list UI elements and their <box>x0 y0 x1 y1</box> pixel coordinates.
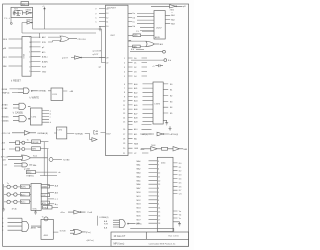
svg-text:TRAP(1): TRAP(1) <box>2 92 10 95</box>
svg-text:17: 17 <box>123 134 125 136</box>
svg-text:B5: B5 <box>170 113 172 115</box>
pin phi-in <box>3 48 22 50</box>
svg-text:RESB: RESB <box>2 89 8 91</box>
nand U9 reset <box>18 88 38 94</box>
border frame <box>3 4 189 246</box>
U14 right pins <box>165 15 170 23</box>
svg-text:38: 38 <box>29 42 31 44</box>
inverter U31 (osc) <box>23 11 33 14</box>
svg-text:ATN: ATN <box>42 202 46 205</box>
svg-text:MD0: MD0 <box>137 192 141 194</box>
connector row 1 <box>4 185 31 189</box>
svg-text:SA1: SA1 <box>171 14 175 17</box>
and gate U10b <box>13 116 30 122</box>
svg-text:MD2: MD2 <box>137 200 141 202</box>
wire dot clock bus upper <box>33 18 102 30</box>
svg-text:A02: A02 <box>134 91 137 94</box>
svg-text:Sout: Sout <box>33 155 37 158</box>
svg-text:RxW: RxW <box>42 67 46 69</box>
svg-text:4066: 4066 <box>44 235 48 237</box>
svg-text:5: 5 <box>124 76 125 78</box>
svg-text:LS373: LS373 <box>155 104 161 106</box>
wire drop to 6510 phi-in <box>39 33 41 38</box>
svg-text:11: 11 <box>123 105 125 107</box>
svg-text:CPU CLK: CPU CLK <box>2 133 11 135</box>
U14 left pins <box>137 13 154 30</box>
svg-text:A03: A03 <box>134 96 137 99</box>
+5V arrow <box>44 8 45 11</box>
svg-text:KERNAL(B): KERNAL(B) <box>38 132 49 135</box>
connector pad (osc out) <box>10 23 12 25</box>
VIC pin numbers left <box>106 9 108 65</box>
svg-text:A06: A06 <box>134 108 137 111</box>
crystal Y1 <box>16 11 21 16</box>
svg-text:1: 1 <box>124 58 125 60</box>
svg-text:A08: A08 <box>134 117 137 120</box>
svg-text:MD7: MD7 <box>137 219 141 221</box>
flipflop U16 74LS74 <box>51 88 63 100</box>
svg-text:ALEC: ALEC <box>21 186 27 189</box>
svg-text:22: 22 <box>106 62 108 64</box>
boxed tag RSin <box>43 206 58 210</box>
svg-text:GND: GND <box>42 71 47 73</box>
svg-text:12: 12 <box>106 17 108 19</box>
svg-text:11: 11 <box>158 176 160 178</box>
pin RDY <box>3 57 22 59</box>
svg-text:AxLx: AxLx <box>21 193 25 196</box>
svg-text:RS.A: RS.A <box>43 206 48 209</box>
or gate U25 <box>70 229 86 234</box>
svg-text:ABC: ABC <box>133 45 138 48</box>
VIC pin phi0 <box>94 130 106 136</box>
svg-text:φ2: φ2 <box>99 67 101 69</box>
svg-text:S./TxB: S./TxB <box>60 230 67 232</box>
svg-text:KERNAL: KERNAL <box>39 90 48 93</box>
svg-text:KERNAL: KERNAL <box>75 132 84 135</box>
boxed tag SPEED <box>128 34 154 37</box>
svg-text:2: 2 <box>158 196 159 198</box>
svg-text:3: 3 <box>158 200 159 202</box>
wire clock bus lower <box>22 23 96 34</box>
mux U14 74LS257 <box>154 11 165 39</box>
wire +5 drop <box>44 11 46 30</box>
latch U26 74LS373 <box>153 82 163 124</box>
svg-text:13: 13 <box>106 13 108 15</box>
pin numbers 6510 <box>29 37 31 73</box>
svg-text:21: 21 <box>123 153 125 155</box>
svg-text:LS257: LS257 <box>156 28 162 30</box>
ground (mid right) <box>169 126 172 130</box>
svg-text:A10: A10 <box>134 128 137 131</box>
ground (U21) <box>173 222 181 226</box>
U21 left pins <box>149 161 158 223</box>
svg-text:B0: B0 <box>170 84 172 86</box>
svg-text:P 0: P 0 <box>4 18 7 20</box>
svg-text:Dc: Dc <box>133 22 135 24</box>
boxed tag out3 <box>41 201 49 205</box>
ground (U26) <box>163 120 168 125</box>
pin RES <box>3 39 22 41</box>
left rail (cluster) <box>3 184 5 207</box>
svg-text:18: 18 <box>158 223 160 225</box>
svg-text:AEC: AEC <box>42 36 47 39</box>
svg-text:MA0: MA0 <box>137 160 141 163</box>
svg-text:MA3: MA3 <box>137 172 141 175</box>
svg-text:MD1: MD1 <box>137 196 141 198</box>
svg-text:c: c <box>50 116 51 118</box>
svg-text:R.W: R.W <box>104 224 108 226</box>
resistor R28 <box>13 12 15 14</box>
svg-text:A11: A11 <box>134 133 137 136</box>
svg-text:A09: A09 <box>134 121 137 124</box>
bus vertical B <box>47 149 49 209</box>
inverter U30 dot clk <box>71 56 106 59</box>
ground (VIC) <box>99 26 102 31</box>
U21 right pins lower <box>173 211 178 218</box>
svg-text:S.P CLK: S.P CLK <box>1 156 9 158</box>
svg-text:1: 1 <box>29 52 30 54</box>
svg-text:Commodore MOS Products Inc: Commodore MOS Products Inc <box>149 242 176 245</box>
pin labels 6510 right <box>42 36 48 73</box>
pin NMI <box>3 66 22 68</box>
svg-text:φ DOT: φ DOT <box>62 58 69 60</box>
svg-text:Tx: Tx <box>27 140 29 142</box>
row capacitors C1 <box>2 140 49 145</box>
wire 6510 to clk gate <box>48 37 60 42</box>
boxed tag ABCDE <box>128 45 147 48</box>
svg-text:MA1: MA1 <box>137 164 141 167</box>
svg-text:↳ RESET: ↳ RESET <box>11 80 22 83</box>
wire VIC clock rail <box>101 29 105 63</box>
svg-text:MD6: MD6 <box>137 215 141 217</box>
buffer U15a <box>141 147 162 151</box>
svg-text:B.d: B.d <box>131 49 134 51</box>
svg-text:↳ CAS(B): ↳ CAS(B) <box>12 112 23 115</box>
svg-text:D3: D3 <box>179 175 181 177</box>
svg-text:7: 7 <box>124 88 125 90</box>
VIC right wire labels <box>134 58 139 155</box>
svg-text:19: 19 <box>123 143 125 145</box>
svg-text:R/W: R/W <box>42 42 46 44</box>
buffer box U20 <box>31 184 41 211</box>
svg-text:13: 13 <box>158 184 160 186</box>
svg-text:D6: D6 <box>179 186 181 188</box>
and gate U12b <box>14 163 32 167</box>
svg-text:5: 5 <box>158 161 159 163</box>
svg-text:D0: D0 <box>134 58 136 60</box>
svg-text:Dd: Dd <box>133 26 135 28</box>
svg-text:5: 5 <box>29 71 30 73</box>
svg-text:7: 7 <box>29 37 30 39</box>
U26 left pins <box>143 84 154 122</box>
svg-text:9: 9 <box>124 96 125 98</box>
svg-text:B3: B3 <box>170 101 172 103</box>
svg-text:6567WXY: 6567WXY <box>107 7 116 9</box>
svg-text:16: 16 <box>123 129 125 131</box>
svg-text:RAS(B): RAS(B) <box>2 116 9 119</box>
svg-text:1: 1 <box>158 192 159 194</box>
svg-text:CAS..: CAS.. <box>140 148 146 151</box>
svg-text:74S04: 74S04 <box>25 10 32 12</box>
svg-text:TRAP(4): TRAP(4) <box>140 133 148 136</box>
inverter U32 <box>26 21 34 24</box>
svg-text:↳ WRITE: ↳ WRITE <box>29 97 39 100</box>
svg-text:(Pxx): (Pxx) <box>86 232 91 234</box>
svg-text:SA3: SA3 <box>171 23 175 26</box>
capacitor C5 +5 <box>156 64 164 67</box>
svg-text:10: 10 <box>158 180 160 182</box>
svg-text:ABRB: ABRB <box>31 226 37 229</box>
labels U23 inputs <box>2 218 4 232</box>
svg-text:b: b <box>50 114 51 116</box>
svg-text:17: 17 <box>158 219 160 221</box>
svg-text:SRQ: SRQ <box>27 172 32 174</box>
label row Pxx <box>136 31 154 33</box>
svg-text:φ CAS: φ CAS <box>24 168 30 171</box>
svg-text:MA2: MA2 <box>137 168 141 171</box>
svg-text:A05: A05 <box>134 104 137 107</box>
svg-text:(P. A): (P. A) <box>12 207 17 210</box>
CPU U7 6510 <box>22 37 31 77</box>
svg-text:TRAP(1): TRAP(1) <box>26 174 34 177</box>
svg-text:Run 1 of 16: Run 1 of 16 <box>169 235 179 237</box>
U21 left wire labels <box>137 160 142 225</box>
svg-text:(RES): (RES) <box>136 223 142 225</box>
svg-text:MD3: MD3 <box>137 204 141 206</box>
svg-text:Db: Db <box>133 17 135 19</box>
inverter U22 <box>68 210 86 214</box>
svg-text:D7: D7 <box>179 190 181 192</box>
buffer U15b <box>168 147 184 151</box>
svg-text:6: 6 <box>124 84 125 86</box>
gate U27 OR (AB) <box>146 42 159 47</box>
svg-text:C.7: C.7 <box>55 199 58 201</box>
svg-text:A01: A01 <box>134 87 137 90</box>
wire osc left rail <box>10 18 12 23</box>
wire U24 out <box>53 231 58 233</box>
bus vertical A <box>43 142 45 176</box>
wire res route <box>130 228 174 231</box>
svg-text:7: 7 <box>158 165 159 167</box>
svg-text:+(E.Pxx): +(E.Pxx) <box>86 240 94 242</box>
connector pad J3 <box>49 158 53 162</box>
svg-text:6: 6 <box>158 169 159 171</box>
svg-text:D0: D0 <box>179 163 181 165</box>
svg-text:ATN: ATN <box>32 148 36 151</box>
svg-text:3: 3 <box>124 67 125 69</box>
svg-text:2: 2 <box>124 62 125 64</box>
svg-text:6567: 6567 <box>111 35 115 37</box>
svg-text:18: 18 <box>123 139 125 141</box>
svg-text:Vc: Vc <box>179 218 181 220</box>
svg-text:MA6: MA6 <box>137 183 141 186</box>
svg-text:6567: 6567 <box>106 134 110 136</box>
stub SP2 <box>48 192 59 195</box>
svg-text:D5: D5 <box>179 182 181 184</box>
boxed tag SRQ <box>26 171 57 175</box>
svg-text:40: 40 <box>106 9 108 11</box>
inverter U8 top right <box>151 5 183 8</box>
svg-text:R27: R27 <box>14 8 18 10</box>
6510 right pins <box>31 37 41 71</box>
U21 right pins upper <box>173 163 178 194</box>
svg-text:10: 10 <box>106 26 108 28</box>
svg-text:A07: A07 <box>134 112 137 115</box>
oscillator box <box>11 7 33 17</box>
VIC left pins mid <box>99 56 106 58</box>
connector pad J2 <box>131 59 167 62</box>
svg-text:SRQIN: SRQIN <box>32 142 39 144</box>
U21 left pin numbers <box>158 161 161 225</box>
svg-text:d: d <box>50 122 51 124</box>
svg-text:D2: D2 <box>179 171 181 173</box>
svg-text:13: 13 <box>123 113 125 115</box>
svg-text:16 Core KT: 16 Core KT <box>114 235 126 238</box>
svg-text:CAS(B): CAS(B) <box>2 119 9 122</box>
buffer U11 <box>12 131 36 135</box>
U26 right pins <box>163 84 168 113</box>
svg-text:+5: +5 <box>152 66 154 68</box>
svg-text:SA2: SA2 <box>171 18 175 21</box>
svg-text:MPU (xxx): MPU (xxx) <box>114 244 125 246</box>
stub SP3 <box>48 203 58 206</box>
svg-text:3: 3 <box>29 61 30 63</box>
RAM U21 4164 <box>157 157 173 231</box>
svg-text:6510: 6510 <box>22 54 24 58</box>
svg-text:Vb: Vb <box>179 215 181 217</box>
and gate U23 (serial) <box>8 218 42 231</box>
svg-text:B2: B2 <box>170 96 172 98</box>
svg-text:A15: A15 <box>42 51 45 54</box>
svg-text:9: 9 <box>158 188 159 190</box>
sheet tag box on top border <box>21 2 29 6</box>
svg-text:B1: B1 <box>170 90 172 92</box>
svg-text:D1: D1 <box>134 62 136 64</box>
or gate U12 <box>8 155 48 160</box>
U17 right pins <box>42 111 49 123</box>
svg-text:A.B(H): A.B(H) <box>42 61 48 64</box>
svg-text:φ COLOR: φ COLOR <box>93 50 102 52</box>
svg-text:7406: 7406 <box>170 9 174 11</box>
svg-text:20: 20 <box>123 148 125 150</box>
resistor R5 <box>162 147 168 150</box>
and gate U28 (res) <box>113 220 136 228</box>
svg-text:→AB: →AB <box>69 90 74 93</box>
svg-text:CPU CLK: CPU CLK <box>78 39 87 41</box>
svg-text:A RAS: A RAS <box>2 103 8 106</box>
svg-text:AxLx: AxLx <box>21 201 25 204</box>
svg-text:A00: A00 <box>134 83 137 86</box>
label row Bxx <box>131 49 144 51</box>
svg-text:LORAM(1): LORAM(1) <box>99 216 109 219</box>
connector row 3 <box>4 200 31 204</box>
svg-text:D1: D1 <box>179 167 181 169</box>
svg-text:D2: D2 <box>134 67 136 69</box>
connector pad (U24 top) <box>44 217 48 221</box>
gate U27 (CPU CLK OR) <box>60 36 77 42</box>
VIC right pin number column <box>123 58 126 155</box>
ground (rail) <box>2 207 5 211</box>
svg-text:A.y: A.y <box>55 203 58 206</box>
svg-text:7408: 7408 <box>151 145 155 147</box>
svg-text:MD5: MD5 <box>137 212 141 214</box>
VIC U19 6567 <box>106 5 129 155</box>
svg-text:15: 15 <box>123 122 125 124</box>
labels U28 inputs <box>99 216 109 229</box>
svg-text:ab: ab <box>58 172 60 174</box>
wire node (U28 feed) <box>96 216 98 226</box>
connector row 2 <box>4 193 31 197</box>
svg-text:39: 39 <box>29 47 31 49</box>
svg-text:L CAS: L CAS <box>2 107 8 110</box>
svg-text:NMI: NMI <box>3 66 7 68</box>
svg-text:15: 15 <box>158 212 160 214</box>
VIC right pins mid rows <box>128 58 152 153</box>
switch box U24 4066 <box>41 219 53 239</box>
svg-text:12: 12 <box>123 109 125 111</box>
svg-text:2: 2 <box>29 57 30 59</box>
svg-text:Tx: Tx <box>42 217 44 219</box>
svg-text:Tx: Tx <box>7 183 9 185</box>
capacitor C30 <box>14 11 23 15</box>
svg-text:11: 11 <box>106 22 108 24</box>
svg-text:+5: +5 <box>42 6 44 8</box>
svg-text:D3: D3 <box>134 71 136 73</box>
svg-text:RDY: RDY <box>3 57 8 59</box>
svg-text:29: 29 <box>106 57 108 59</box>
connector pad J1 <box>130 50 165 53</box>
flipflop U18 <box>57 127 67 139</box>
stub CNT <box>48 199 58 201</box>
boxed tag out2 <box>41 193 49 197</box>
svg-text:φ2: φ2 <box>42 47 44 49</box>
flipflop U17 <box>30 108 42 125</box>
svg-text:MA5: MA5 <box>137 179 141 182</box>
stub SP1 <box>48 184 59 187</box>
and gate U10a <box>13 103 30 109</box>
ground (U20) <box>34 210 37 214</box>
svg-text:MA7: MA7 <box>137 187 141 190</box>
svg-text:12: 12 <box>158 173 160 175</box>
wire OR input a <box>128 39 147 42</box>
svg-text:74S04: 74S04 <box>26 19 33 21</box>
svg-text:SPD: SPD <box>134 35 139 37</box>
boxed tag out1 <box>41 185 49 189</box>
VIC left pins top <box>99 9 106 27</box>
pointer flag <box>90 138 98 142</box>
title block <box>111 232 189 246</box>
inverter U13 <box>149 132 169 136</box>
svg-text:16: 16 <box>158 215 160 217</box>
row capacitors C2 <box>2 147 49 151</box>
VIC right pins upper <box>128 13 132 26</box>
svg-text:B.b: B.b <box>168 60 171 62</box>
svg-text:DATA: DATA <box>42 185 48 188</box>
svg-text:PxxB: PxxB <box>88 212 93 214</box>
svg-text:10: 10 <box>123 101 125 103</box>
svg-text:A.B(L): A.B(L) <box>42 56 48 59</box>
svg-text:To KBD: To KBD <box>63 160 70 162</box>
svg-text:8: 8 <box>124 92 125 94</box>
svg-text:φ DOT: φ DOT <box>93 54 100 56</box>
svg-text:xRxx: xRxx <box>60 212 64 214</box>
svg-text:LATCH(4): LATCH(4) <box>170 133 179 136</box>
